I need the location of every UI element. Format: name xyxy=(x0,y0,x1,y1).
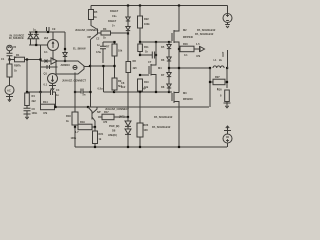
node dot x40 y92 xyxy=(39,91,41,93)
diode D5 gate clamp xyxy=(167,42,171,50)
opamp input glyph cross xyxy=(45,60,48,63)
node dot C9 xyxy=(47,31,49,33)
svg-text:5k1: 5k1 xyxy=(118,84,123,88)
resistor R17 xyxy=(98,114,128,120)
node dot R1 right xyxy=(26,58,28,60)
svg-text:R11: R11 xyxy=(144,45,149,49)
wire rail y42 right xyxy=(140,41,169,43)
svg-text:M2: M2 xyxy=(183,28,187,32)
capacitor C6 xyxy=(24,108,31,113)
inductor L1 xyxy=(213,66,224,68)
current source Q6 xyxy=(48,40,59,51)
node dot rail92 x75 xyxy=(74,91,76,93)
svg-text:1n: 1n xyxy=(97,43,100,47)
node dot rail92 x28 xyxy=(26,91,28,93)
wire opamp rail y63 xyxy=(90,65,116,67)
node dot rail92 x90 xyxy=(89,91,91,93)
wire x28 column xyxy=(26,60,28,93)
node dot rail92 x155 xyxy=(155,91,157,93)
svg-text:0.1: 0.1 xyxy=(44,50,48,54)
node dot bottom x140 xyxy=(139,146,141,148)
ground under R30 xyxy=(224,101,231,108)
node dot bottom x96 xyxy=(94,146,96,148)
opamp input glyph triangle xyxy=(51,58,57,64)
svg-text:1.5: 1.5 xyxy=(196,42,200,46)
output probe arrow xyxy=(200,46,205,52)
svg-text:PA_SCH09-B12: PA_SCH09-B12 xyxy=(154,115,173,119)
node dot top rail x140 xyxy=(139,4,141,6)
opamp U1 xyxy=(56,61,89,74)
wire feedback rail y107 xyxy=(56,106,210,108)
svg-text:R27: R27 xyxy=(215,75,220,79)
resistor R3 xyxy=(101,31,128,35)
node dot x40 y60 xyxy=(39,58,41,60)
mosfet M2 xyxy=(169,30,179,49)
wire x227 to R30 xyxy=(226,68,228,88)
svg-text:R16: R16 xyxy=(183,42,188,46)
svg-text:NP: NP xyxy=(143,87,147,91)
svg-text:47k: 47k xyxy=(196,54,201,58)
node dot clamp top xyxy=(35,31,37,33)
ground under Q1 xyxy=(49,84,56,91)
diode D3 xyxy=(125,117,131,126)
svg-text:D4HbT: D4HbT xyxy=(110,9,119,13)
resistor R7 xyxy=(112,42,117,66)
svg-text:R14: R14 xyxy=(43,100,48,104)
resistor R11 xyxy=(138,42,143,55)
wire Q2 emitter column x89 xyxy=(90,40,92,108)
svg-text:R21: R21 xyxy=(99,132,104,136)
svg-text:100: 100 xyxy=(144,128,149,132)
svg-text:0.5u: 0.5u xyxy=(98,87,103,91)
resistor R21 xyxy=(93,127,98,147)
mosfet M4 driver xyxy=(140,42,156,92)
svg-text:PA_SCH09-B12: PA_SCH09-B12 xyxy=(152,125,171,129)
ground under V1 xyxy=(225,23,230,28)
diode DB input clamp xyxy=(34,32,39,45)
node dot x210 y82 xyxy=(209,81,211,83)
svg-text:OUT: OUT xyxy=(221,51,225,57)
transistor Q2 xyxy=(91,29,102,40)
capacitor C1 xyxy=(7,51,13,60)
resistor R4 xyxy=(25,93,30,108)
resistor R2 xyxy=(7,60,12,86)
svg-text:1n: 1n xyxy=(56,93,59,97)
svg-text:470: 470 xyxy=(103,120,108,124)
wire rail y42 mid xyxy=(103,41,115,43)
current source Q1 xyxy=(48,74,58,84)
svg-text:D4HbT: D4HbT xyxy=(108,19,117,23)
voltage source V1 xyxy=(223,14,232,23)
diode D2 xyxy=(126,21,130,34)
node dot x227 y82 xyxy=(226,81,228,83)
wire Q6 top xyxy=(52,32,54,40)
resistor R26 xyxy=(179,46,199,52)
node dot rail92 x114 xyxy=(113,91,115,93)
node dot rail42 x169 xyxy=(168,41,170,43)
resistor R23 xyxy=(137,92,143,147)
svg-text:4k5: 4k5 xyxy=(133,66,138,70)
svg-text:R19: R19 xyxy=(80,120,85,124)
diode D6 gate clamp xyxy=(167,50,171,68)
wire x75 corner xyxy=(74,127,76,147)
node dot rail68 x176 xyxy=(178,67,180,69)
svg-text:100u: 100u xyxy=(71,136,77,140)
wire input top y32 xyxy=(29,31,65,33)
svg-text:Q1: Q1 xyxy=(44,72,48,76)
svg-text:JUHASZ_CONNECT: JUHASZ_CONNECT xyxy=(62,79,86,83)
svg-text:2k2: 2k2 xyxy=(32,99,37,103)
svg-text:PA_SCH09-B12: PA_SCH09-B12 xyxy=(195,32,214,36)
node dot C7 right xyxy=(155,54,157,56)
svg-text:R30: R30 xyxy=(217,88,222,92)
svg-text:NP: NP xyxy=(88,35,92,39)
wire V1 drop xyxy=(227,6,229,14)
wire bias rail y92 right xyxy=(53,91,170,93)
svg-text:R22: R22 xyxy=(144,17,149,21)
node dot bottom x128 xyxy=(127,146,129,148)
resistor R10 xyxy=(138,79,143,91)
svg-text:0.5u: 0.5u xyxy=(96,50,101,54)
wire bias rail y92 left xyxy=(27,91,51,93)
wire Q6 bottom to opamp xyxy=(52,51,54,61)
node dot rail107 x88 xyxy=(87,106,89,108)
wire top positive rail xyxy=(91,5,228,7)
diode DA input clamp xyxy=(28,32,33,45)
mosfet M3 xyxy=(169,92,179,148)
voltage source V2 xyxy=(7,45,13,51)
opamp input glyph plus xyxy=(47,65,50,69)
svg-text:AD8610: AD8610 xyxy=(61,63,71,67)
node dot rail68 x227 xyxy=(226,67,228,69)
wire M2 source to M3 drain xyxy=(178,42,180,93)
svg-text:2k2: 2k2 xyxy=(44,36,49,40)
node dot x65 y49 xyxy=(64,48,66,50)
node dot rail42 x140 xyxy=(139,41,141,43)
svg-text:0.1: 0.1 xyxy=(44,83,48,87)
svg-text:PGR_(B): PGR_(B) xyxy=(109,124,120,128)
svg-text:IN_SOURCE: IN_SOURCE xyxy=(9,36,24,40)
resistor R19 xyxy=(78,124,96,130)
svg-text:R18: R18 xyxy=(66,114,71,118)
svg-text:10k: 10k xyxy=(118,49,123,53)
wire M2 drain column x179 xyxy=(174,6,179,32)
svg-text:47k: 47k xyxy=(43,111,48,115)
diode X over opamp xyxy=(63,32,67,61)
svg-text:IRFP240: IRFP240 xyxy=(183,35,193,39)
node dot rail66 x114 xyxy=(113,65,115,67)
node dot input xyxy=(8,58,10,60)
node dot rail92 x169 xyxy=(168,91,170,93)
resistor R30 xyxy=(225,90,230,104)
ground under C6 xyxy=(24,113,31,119)
resistor R5 xyxy=(89,6,98,30)
resistor R8 xyxy=(126,34,131,118)
node dot rail42 x155 xyxy=(155,41,157,43)
diode D1 xyxy=(126,6,130,22)
opamp input wire plus xyxy=(41,66,58,68)
svg-text:[NC]: [NC] xyxy=(119,115,124,119)
resistor R1 xyxy=(10,57,41,62)
svg-text:M4: M4 xyxy=(158,66,162,70)
node dot R11 bottom xyxy=(139,54,141,56)
svg-text:100k: 100k xyxy=(144,22,150,26)
node dot rail92 x140 xyxy=(139,91,141,93)
svg-text:C9+: C9+ xyxy=(112,14,117,18)
transistor Q7 xyxy=(88,107,97,127)
node dot opamp top xyxy=(64,60,66,62)
wire clamp bottom y45 xyxy=(29,44,48,46)
svg-text:HSH(K): HSH(K) xyxy=(108,133,117,137)
node dot top rail x128 xyxy=(127,4,129,6)
resistor R27 xyxy=(210,79,227,85)
node dot x128 y117 xyxy=(127,116,129,118)
wire x40 column xyxy=(40,45,42,105)
svg-text:R23: R23 xyxy=(144,123,149,127)
svg-text:EL_BKHW: EL_BKHW xyxy=(73,47,86,51)
resistor R6 xyxy=(138,6,143,43)
ground under V3 xyxy=(6,95,13,102)
svg-text:JUHASZ_CONNECT: JUHASZ_CONNECT xyxy=(105,107,129,111)
voltage source V4 xyxy=(223,134,232,147)
svg-text:5n: 5n xyxy=(83,93,86,97)
capacitor C2 xyxy=(100,42,106,63)
opamp input wire minus xyxy=(41,60,52,62)
svg-text:1.7: 1.7 xyxy=(75,130,79,134)
wire output rail y68 xyxy=(169,67,211,69)
svg-text:PA_SCH09-B12: PA_SCH09-B12 xyxy=(197,28,216,32)
svg-text:IRF9240: IRF9240 xyxy=(183,97,193,101)
node dot opamp out xyxy=(89,65,91,67)
svg-text:AC: AC xyxy=(7,89,11,93)
svg-text:NP: NP xyxy=(97,110,101,114)
capacitor C4 xyxy=(51,90,53,96)
diode D7 xyxy=(167,68,171,77)
node dot rail68 x169 xyxy=(168,67,170,69)
diode D4 xyxy=(125,126,131,147)
wire corner x103 xyxy=(103,66,105,92)
node dot rail107 x55 xyxy=(54,106,56,108)
wire OUT stub above rail xyxy=(227,50,229,68)
capacitor C7 xyxy=(140,52,156,59)
resistor R18 xyxy=(72,73,78,148)
svg-text:JUHASZ_CONNELL: JUHASZ_CONNELL xyxy=(75,28,99,32)
capacitor C5 xyxy=(81,89,83,94)
source V3 xyxy=(5,86,14,95)
node dot rail68 x210 xyxy=(209,67,211,69)
node dot Q7 emitter xyxy=(94,126,96,128)
resistor R9 xyxy=(112,66,117,92)
diode D8 xyxy=(167,77,171,92)
node dot bottom x176 xyxy=(178,146,180,148)
node dot R26 left xyxy=(178,48,180,50)
svg-text:2u: 2u xyxy=(219,58,222,62)
svg-text:R10: R10 xyxy=(144,80,149,84)
node dot x75 y127 xyxy=(74,126,76,128)
capacitor C9 xyxy=(47,27,50,32)
node dot R7 top xyxy=(113,41,115,43)
node dot R3 x128 xyxy=(127,32,129,34)
node dot top rail x179 xyxy=(178,4,180,6)
svg-text:0.1: 0.1 xyxy=(184,53,188,57)
wire feedback corner x209 xyxy=(209,68,211,107)
wire bottom negative rail xyxy=(75,146,227,148)
resistor R14 feedback xyxy=(41,92,56,110)
ground above V4 xyxy=(224,126,231,134)
node dot rail66 x103 xyxy=(102,65,104,67)
svg-text:100n: 100n xyxy=(32,111,38,115)
node dot clamp xyxy=(35,44,37,46)
svg-text:M3: M3 xyxy=(183,91,187,95)
node dot gate M4 xyxy=(139,74,141,76)
